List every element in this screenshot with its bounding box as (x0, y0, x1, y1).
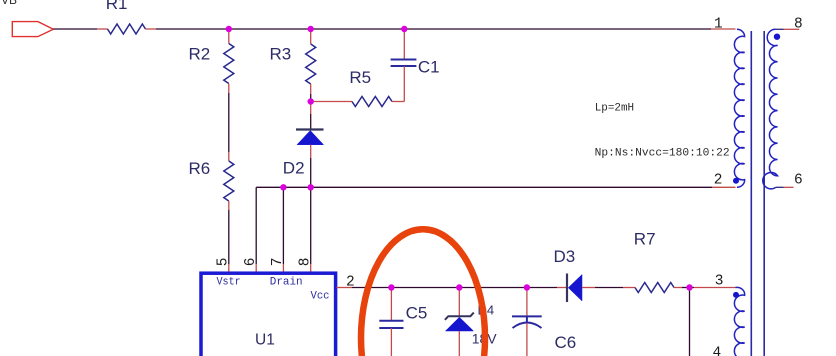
svg-text:Drain: Drain (270, 277, 303, 289)
svg-text:C5: C5 (406, 304, 428, 323)
pin stub U1 pin 5 (228, 264, 230, 272)
svg-text:D3: D3 (554, 247, 576, 266)
pin stub transformer pin 8 (776, 28, 784, 30)
pin stub R1 left (97, 28, 108, 30)
wire C6 to D3 (527, 287, 557, 289)
pin stub D4 top (458, 288, 460, 317)
svg-text:D2: D2 (283, 159, 305, 178)
zener diode D4 (445, 313, 474, 331)
pin stub R6 top (228, 152, 230, 161)
transformer secondary winding pins 8-6 (763, 29, 778, 189)
pin stub D4 bottom (458, 331, 460, 356)
transformer T1 primary winding pins 1-2 (734, 29, 744, 187)
pin stub U1 pin 2 Vcc (336, 287, 352, 289)
svg-text:C6: C6 (555, 333, 577, 352)
junction node F (308, 184, 314, 190)
pin stub R7 right (674, 287, 682, 289)
pin stub R5 right (392, 101, 404, 103)
svg-text:R6: R6 (189, 159, 211, 178)
transformer polarity dot pin 3 (733, 292, 739, 298)
wire D2 to row2 (310, 158, 312, 187)
transformer core lines (751, 31, 764, 356)
wire node G to transformer pin 3 (690, 287, 695, 289)
pin stub U1 pin 8 (310, 264, 312, 272)
junction node E (280, 184, 286, 190)
highlight ellipse annotation (361, 229, 485, 356)
junction node A (226, 26, 232, 32)
resistor R5 (352, 97, 392, 107)
pin stub transformer pin 3 (694, 287, 735, 289)
junction node Vcc-C5 (388, 284, 394, 290)
wire R2 to R6 (228, 93, 230, 152)
svg-text:4: 4 (713, 346, 722, 356)
pin stub R2 top (228, 29, 230, 44)
wire D4 to C6 (459, 287, 527, 289)
junction node D (308, 98, 314, 104)
wire R7 to node G (682, 287, 690, 289)
wire Vcc row to C5 (352, 287, 391, 289)
pin stub R6 bottom (228, 201, 230, 210)
wire node A to node B (229, 28, 311, 30)
wire node F to pin8 (310, 187, 312, 264)
svg-text:3: 3 (715, 274, 724, 290)
junction node G (686, 284, 692, 290)
pin stub transformer pin 6 (776, 186, 784, 188)
capacitor C1 (391, 60, 417, 67)
svg-text:U1: U1 (255, 332, 275, 349)
pin stub D3 left (557, 287, 567, 289)
wire port to R1 (53, 28, 97, 30)
junction node Vcc-D4 (456, 284, 462, 290)
op-amp U1 box (201, 273, 336, 356)
pin stub R1 right (146, 28, 157, 30)
svg-text:C1: C1 (418, 57, 440, 76)
svg-text:VB: VB (1, 0, 17, 7)
svg-text:8: 8 (794, 17, 803, 33)
svg-text:6: 6 (243, 258, 259, 267)
port VB symbol (12, 22, 53, 37)
pin stub U1 pin 7 (282, 264, 284, 272)
wire node B to node C (311, 28, 405, 30)
wire row2 left corner to pin6 (255, 187, 257, 264)
svg-text:R2: R2 (189, 45, 211, 64)
pin stub R7 left (623, 287, 635, 289)
resistor R7 (635, 283, 674, 293)
svg-text:R7: R7 (634, 229, 656, 248)
diode D2 (296, 130, 324, 145)
svg-text:R3: R3 (270, 45, 292, 64)
wire R6 to U1 pin 5 (228, 210, 230, 264)
svg-text:5: 5 (216, 258, 232, 267)
pin stub C5 bottom (390, 328, 392, 356)
svg-text:R5: R5 (349, 68, 371, 87)
svg-text:8: 8 (297, 258, 313, 267)
junction node Vcc-C6 (524, 284, 530, 290)
resistor R2 (224, 44, 234, 84)
pin stub C1 bottom (403, 66, 405, 102)
svg-text:1: 1 (714, 17, 723, 33)
capacitor C5 (379, 321, 403, 328)
capacitor C6 polarized (512, 316, 542, 328)
wire node C to transformer pin 1 (404, 28, 711, 30)
pin stub C6 top (526, 288, 528, 317)
diode D3 (567, 274, 582, 303)
junction node C (401, 26, 407, 32)
svg-text:Vstr: Vstr (217, 277, 241, 289)
pin stub transformer pin 1 (711, 28, 736, 30)
pin stub transformer pin 2 (712, 186, 736, 188)
pin stub U1 pin 6 (255, 264, 257, 272)
resistor R1 (108, 24, 146, 34)
transformer polarity dot pin 8 (774, 34, 780, 40)
wire R3 to node D (310, 94, 312, 102)
svg-text:7: 7 (270, 258, 286, 267)
pin stub R3 top (310, 29, 312, 44)
pin stub C6 bottom (526, 323, 528, 356)
svg-text:2: 2 (714, 173, 723, 189)
wire R1 to node A (156, 28, 229, 30)
pin stub R3 bottom (310, 84, 312, 94)
pin stub C5 top (390, 288, 392, 321)
transformer polarity dot pin 2 (733, 178, 739, 184)
resistor R6 (224, 161, 234, 201)
resistor R3 (306, 44, 316, 84)
pin stub C1 top (403, 29, 405, 60)
pin stub R2 bottom (228, 84, 230, 94)
wire node E to pin7 (282, 187, 284, 264)
pin stub R5 left (311, 101, 352, 103)
wire node G down (689, 288, 691, 356)
svg-text:6: 6 (794, 173, 803, 189)
svg-text:Vcc: Vcc (311, 291, 330, 303)
svg-text:Lp=2mH: Lp=2mH (595, 103, 634, 115)
pin stub D3 right (582, 287, 595, 289)
transformer aux winding pins 3-4 (734, 287, 744, 356)
wire D3 to R7 (595, 287, 623, 289)
wire D2 top (310, 114, 312, 130)
svg-text:R1: R1 (106, 0, 128, 13)
wire C5 to D4 (391, 287, 459, 289)
wire row2 horizontal (256, 186, 712, 188)
svg-text:Np:Ns:Nvcc=180:10:22: Np:Ns:Nvcc=180:10:22 (595, 148, 730, 160)
pin stub D2 bottom (310, 145, 312, 158)
pin stub D2 top (310, 102, 312, 115)
junction node B (308, 26, 314, 32)
